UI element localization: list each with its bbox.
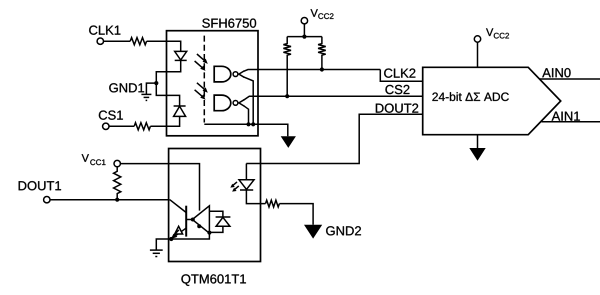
node R5 to DOUT1 (115, 198, 119, 202)
wire G1 emitter to rail (244, 77, 254, 124)
wire amp apex to base (186, 219, 192, 221)
wire LED2 anode to CS1 resistor (150, 116, 179, 126)
label QTM601T1 (181, 274, 245, 286)
terminal CLK1 (97, 38, 103, 44)
terminal VCC2 (ADC) (474, 36, 480, 42)
resistor R5 (VCC1 to DOUT1) (114, 167, 121, 200)
label 24-bit ADC (432, 92, 508, 101)
label CLK2 (384, 69, 415, 78)
node GND1 junction (154, 81, 158, 85)
terminal VCC1 (114, 160, 120, 166)
wire LED1 cathode to GND1 node (156, 60, 180, 83)
ground GND2 triangle (304, 225, 322, 239)
wire G2 output to CS2 (244, 96, 423, 100)
label AIN1 (552, 112, 580, 121)
wire CLK1 to resistor (104, 40, 131, 42)
diode D4 loop (209, 211, 230, 232)
wire G2 emitter to rail (244, 106, 249, 125)
ground (input side) symbol (150, 250, 163, 256)
LED D5 (QTM transmit, fed by DOUT2) (239, 164, 254, 191)
wire VCC1 into box (120, 164, 199, 211)
node R4 to CLK2 (320, 67, 324, 71)
wire junction to ground (146, 83, 156, 94)
resistor R4 (pull-up to CLK2) (318, 37, 326, 70)
label CLK1 (89, 26, 120, 35)
label DOUT1 (19, 181, 61, 190)
bubble G2 (233, 101, 238, 106)
wire VCC2 to ADC (477, 42, 479, 67)
ground ADC (477, 135, 479, 148)
terminal CS1 (103, 123, 109, 129)
label CS1 (99, 111, 123, 120)
node VCC2 junction (302, 35, 306, 39)
wire LED cathode to resistor (246, 190, 265, 204)
bubble G1 (233, 72, 238, 77)
wire GND1 node to LED2 (156, 83, 179, 106)
wire DOUT2 from ADC to QTM LED (246, 114, 422, 163)
resistor R3 (pull-up to CS2) (283, 37, 291, 97)
output arrow G2 (239, 100, 244, 106)
label AIN0 (542, 68, 570, 77)
ADC U2 24-bit delta-sigma (423, 67, 561, 134)
wire AIN1 (542, 121, 600, 123)
light arrows channel 2 (195, 83, 208, 100)
resistor R1 (130, 38, 146, 45)
isolation barrier (dashed) (203, 36, 205, 123)
ground GND1 symbol (141, 94, 151, 100)
terminal DOUT1 (44, 197, 50, 203)
amplifier A1 (photo receiver amp) (192, 206, 209, 233)
light arrows channel 1 (195, 54, 208, 71)
wire resistor to GND2 (279, 204, 313, 225)
label SFH6750 (202, 19, 256, 28)
ground (isolated side) triangle (281, 136, 296, 148)
node rail junction 2 (251, 122, 255, 126)
label GND1 (109, 83, 144, 92)
label CS2 (385, 85, 409, 94)
node emitter junction (169, 237, 173, 241)
wire CLK2 step to ADC (380, 70, 422, 82)
label GND2 (326, 226, 361, 235)
optocoupler U3 box QTM601T1 (169, 149, 261, 262)
resistor R6 (266, 200, 280, 207)
resistor R2 (134, 123, 150, 130)
wire DOUT1 into box (50, 199, 170, 201)
wire AIN0 (540, 78, 600, 80)
wire VCC2 to resistors (303, 24, 305, 37)
label VCC2 ADC (486, 28, 493, 36)
wire G1 output to CLK2 (244, 70, 381, 72)
label VCC1 (82, 154, 89, 162)
wire emitter to ground (156, 239, 171, 250)
label DOUT2 (376, 104, 418, 113)
node amp bottom corner (207, 231, 211, 235)
LED D2 (CS channel, cathode top) (174, 106, 186, 116)
node amp apex (191, 218, 195, 222)
output arrow G1 (239, 71, 244, 77)
photodiode D3 (receiver) (172, 226, 183, 237)
wire CS1 to resistor (109, 125, 134, 127)
gate G1 (CLK channel detector) (214, 66, 231, 82)
optocoupler U1 box SFH6750 (167, 31, 259, 136)
node R3 to CS2 (285, 94, 289, 98)
wire receiver bottom rail (171, 232, 209, 239)
LED D1 (CLK channel, anode top) (175, 51, 187, 60)
label VCC2 (311, 9, 318, 17)
transistor Q1 (output phototransistor) (170, 200, 186, 239)
wire common rail (204, 124, 287, 136)
wire resistor to LED1 (147, 41, 181, 51)
node rail junction 1 (246, 122, 250, 126)
light arrows D5 (230, 182, 239, 192)
terminal VCC2 (pull-ups) (301, 18, 307, 24)
gate G2 (CS channel detector) (214, 95, 231, 111)
node amp lower edge (197, 224, 201, 228)
